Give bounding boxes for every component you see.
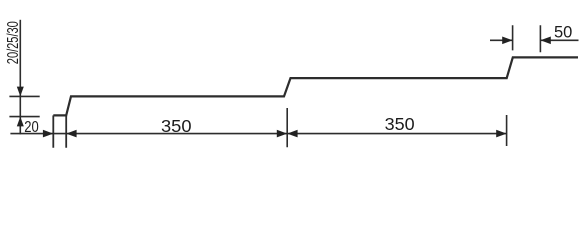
- svg-text:20: 20: [24, 119, 39, 136]
- svg-text:20/25/30: 20/25/30: [5, 21, 22, 64]
- svg-text:350: 350: [161, 116, 192, 136]
- svg-text:350: 350: [385, 114, 415, 134]
- svg-text:50: 50: [554, 24, 572, 42]
